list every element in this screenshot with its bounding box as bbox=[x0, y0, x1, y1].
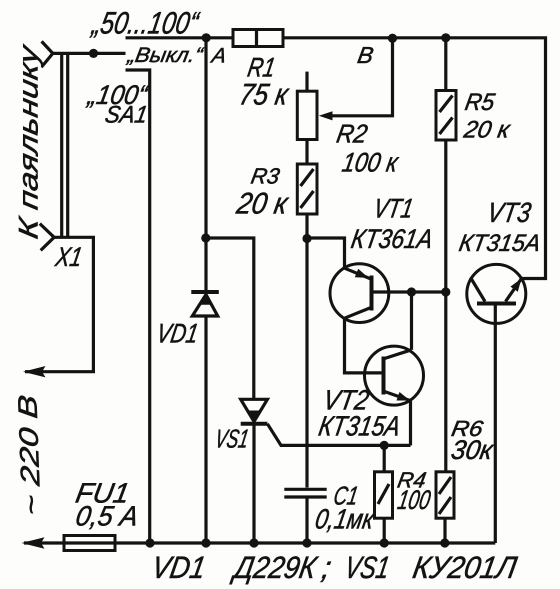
label node B bbox=[356, 42, 376, 68]
junction bus / VD1 bbox=[201, 538, 210, 547]
fuse FU1 bbox=[64, 536, 115, 551]
label ~220 В (rotated) bbox=[12, 394, 46, 517]
svg-text:VD1: VD1 bbox=[154, 318, 200, 349]
svg-text:„50...100“: „50...100“ bbox=[88, 6, 202, 41]
wire: C1 bottom to bus bbox=[305, 499, 308, 544]
label 0,1мк bbox=[313, 503, 378, 535]
label R4 bbox=[396, 468, 428, 493]
label VD1 bbox=[154, 318, 200, 349]
svg-text:75 к: 75 к bbox=[237, 79, 292, 112]
junction gate/R4 bbox=[380, 441, 389, 450]
svg-text:К паяльнику: К паяльнику bbox=[13, 42, 44, 241]
label VD1 (bottom caption) bbox=[149, 550, 208, 585]
resistor R1 bbox=[233, 30, 283, 47]
wire: junction to VS1 anode bbox=[206, 238, 254, 399]
svg-text:~ 220 В: ~ 220 В bbox=[12, 394, 46, 517]
label VT3 bbox=[485, 196, 534, 228]
label КТ315А (VT2) bbox=[316, 410, 403, 442]
capacitor C1 bbox=[284, 489, 326, 497]
label 20 к (R5) bbox=[461, 117, 513, 144]
transistor VT1 bbox=[330, 264, 389, 323]
junction bus / SA1 100 line bbox=[145, 538, 154, 547]
junction VT2 collector / VT1 base bbox=[407, 287, 416, 296]
svg-text:R2: R2 bbox=[334, 119, 370, 149]
svg-text:R3: R3 bbox=[249, 164, 282, 189]
junction bus / VS1 bbox=[249, 538, 258, 547]
label R3 bbox=[249, 164, 282, 189]
label „50...100” bbox=[88, 6, 202, 41]
wire: VS1 gate to R4/VT2 bbox=[267, 424, 410, 446]
label node A bbox=[208, 45, 228, 68]
label R1 bbox=[245, 52, 277, 83]
node B junction bbox=[388, 34, 397, 43]
svg-text:VT3: VT3 bbox=[485, 196, 534, 228]
junction R5 top bbox=[441, 33, 450, 42]
label 0,5 А bbox=[73, 500, 141, 532]
label 75к bbox=[237, 79, 292, 112]
label VS1 bbox=[213, 424, 251, 454]
label 100 к bbox=[340, 147, 401, 178]
label VS1 (bottom caption) bbox=[342, 550, 392, 585]
junction node A / VS1 branch bbox=[201, 233, 210, 242]
junction R5-R6 line / VT1 base bbox=[441, 287, 450, 296]
transistor VT3 bbox=[467, 264, 526, 323]
label R6 bbox=[450, 416, 486, 441]
wire: junction down to C1 bbox=[305, 238, 308, 488]
label FU1 bbox=[73, 477, 132, 509]
resistor R5 bbox=[436, 38, 456, 140]
label „Выкл.” bbox=[125, 44, 205, 67]
svg-text:„Выкл.“: „Выкл.“ bbox=[125, 44, 205, 67]
label КТ315А (VT3) bbox=[457, 230, 543, 257]
svg-text:100 к: 100 к bbox=[340, 147, 401, 178]
svg-text:0,1мк: 0,1мк bbox=[313, 503, 378, 535]
wire: VT1 collector to VT2 base bbox=[345, 318, 383, 373]
svg-text:VD1: VD1 bbox=[149, 550, 208, 585]
arrowhead mains lower bbox=[22, 537, 45, 549]
wire: VT2 emitter down to gate line bbox=[409, 401, 412, 446]
arrowhead mains upper bbox=[23, 366, 46, 377]
wire: cable double line to soldering iron bbox=[62, 53, 68, 237]
label R5 bbox=[463, 89, 497, 116]
switch SA1 throw „50...100” line bbox=[126, 36, 234, 39]
junction bus / C1 bbox=[302, 538, 311, 547]
wire: top rail right of R1, right edge down to VT3 emitter bbox=[283, 38, 546, 279]
label ; bbox=[319, 550, 334, 585]
label VT2 bbox=[321, 384, 372, 416]
wire: VT3 base down to bus corner bbox=[494, 304, 497, 544]
thyristor VS1 bbox=[241, 399, 268, 424]
svg-text:0,5 А: 0,5 А bbox=[73, 500, 141, 532]
label C1 bbox=[331, 481, 360, 511]
transistor VT2 bbox=[365, 346, 424, 405]
label SA1 bbox=[103, 102, 150, 129]
svg-text:КТ315А: КТ315А bbox=[316, 410, 403, 442]
wire: X1 pin1 to switch common bbox=[53, 52, 126, 55]
junction R3/C1/VT1 bbox=[302, 234, 311, 243]
label 20к (R3) bbox=[233, 188, 291, 221]
label 100 (R4) bbox=[395, 484, 432, 515]
svg-text:VT1: VT1 bbox=[371, 193, 415, 224]
wire: VS1 cathode down to bus bbox=[252, 425, 255, 544]
label 30к bbox=[449, 434, 497, 465]
resistor R3 bbox=[297, 164, 317, 214]
label К паяльнику (rotated) bbox=[13, 42, 44, 241]
svg-text:SA1: SA1 bbox=[103, 102, 150, 129]
svg-text:100: 100 bbox=[395, 484, 432, 515]
svg-text:20 к: 20 к bbox=[461, 117, 513, 144]
arrowhead R2 wiper bbox=[319, 111, 333, 120]
connector X1 pin 2 (fork) bbox=[40, 224, 54, 251]
wire: VT2 collector up to VT1 base bbox=[410, 292, 413, 350]
svg-text:VS1: VS1 bbox=[342, 550, 392, 585]
svg-text:30к: 30к bbox=[449, 434, 497, 465]
wire: R2 to R3 bbox=[305, 140, 308, 165]
resistor R6 bbox=[436, 472, 454, 543]
svg-text:R5: R5 bbox=[463, 89, 497, 116]
svg-text:КТ315А: КТ315А bbox=[457, 230, 543, 257]
switch SA1 throw „100” line bbox=[126, 70, 150, 543]
svg-text:КУ201Л: КУ201Л bbox=[410, 550, 520, 585]
label „100” bbox=[85, 79, 151, 110]
wire: X1 pin2 down-left to mains arrow bbox=[25, 237, 93, 371]
resistor R4 bbox=[375, 445, 393, 543]
label Д229К bbox=[229, 550, 320, 585]
svg-text:VS1: VS1 bbox=[213, 424, 251, 454]
wire: node B to R2 wiper bbox=[332, 38, 393, 116]
wire: VD1 anode down to bus bbox=[204, 316, 207, 543]
resistor R2 (variable) bbox=[297, 72, 317, 140]
wire: junction to VT1 emitter bbox=[307, 238, 345, 268]
junction bus / R4 bbox=[380, 538, 389, 547]
label X1 bbox=[53, 241, 85, 272]
connector X1 pin 1 (fork) bbox=[42, 41, 53, 66]
diode VD1 bbox=[191, 292, 219, 316]
wire: node A vertical to VD1 bbox=[204, 38, 207, 292]
wire: R3 bottom lead bbox=[305, 214, 308, 238]
svg-text:20 к: 20 к bbox=[233, 188, 291, 221]
junction bus / R6 bbox=[440, 538, 449, 547]
label R2 bbox=[334, 119, 370, 149]
junction on common wire bbox=[89, 49, 98, 58]
wire: VT1 base line bbox=[372, 290, 446, 293]
label VT1 bbox=[371, 193, 415, 224]
label КТ361А bbox=[349, 223, 435, 254]
svg-text:Д229К: Д229К bbox=[229, 550, 320, 585]
label КУ201Л bbox=[410, 550, 520, 585]
wire: bottom bus bbox=[24, 541, 495, 544]
svg-text:X1: X1 bbox=[53, 241, 85, 272]
node A junction on top rail bbox=[202, 33, 211, 42]
wire: R5 bottom down to R6 bbox=[444, 140, 447, 472]
svg-text:КТ361А: КТ361А bbox=[349, 223, 435, 254]
